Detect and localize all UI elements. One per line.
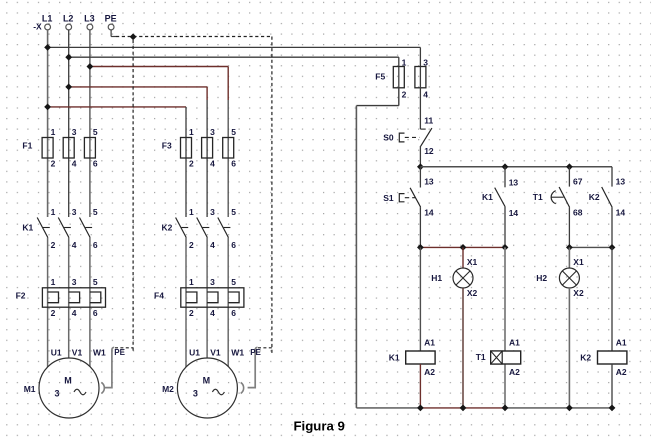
svg-text:6: 6 — [93, 159, 98, 169]
contactor K1 contact 1-2 — [37, 207, 55, 250]
motor M2 PE pigtail — [241, 347, 258, 393]
svg-text:S1: S1 — [383, 193, 394, 203]
coil K1 — [406, 338, 436, 378]
svg-text:U1: U1 — [189, 347, 200, 357]
svg-text:3: 3 — [72, 207, 77, 217]
wire K2 coil to bottom rail — [611, 364, 613, 408]
wire K2 aux to K2 coil — [611, 247, 613, 351]
wire S0 to rail — [419, 146, 421, 167]
overload F4 pole 3-4 — [207, 277, 218, 318]
wire rail2 to H1 — [462, 247, 464, 268]
svg-text:3: 3 — [54, 389, 59, 399]
overload F4 pole 5-6 — [228, 277, 239, 318]
wire L1 branch to F3 — [48, 106, 186, 108]
wire PE dashed horizontal — [116, 36, 272, 38]
svg-text:F1: F1 — [22, 140, 32, 150]
svg-text:1: 1 — [189, 207, 194, 217]
svg-text:A2: A2 — [424, 367, 435, 377]
wire control top rail — [420, 166, 612, 168]
node mid rail K1aux — [502, 244, 509, 251]
wire control return left — [398, 88, 400, 106]
svg-text:U1: U1 — [51, 347, 62, 357]
svg-text:W1: W1 — [93, 347, 106, 357]
overload relay F4 box — [181, 288, 244, 307]
svg-text:5: 5 — [93, 207, 98, 217]
fuse F3 pole 3-4 — [202, 127, 216, 169]
wire bottom rail maroon — [420, 407, 505, 409]
fuse F1 pole 1-2 — [42, 127, 56, 169]
node bottom K1 — [417, 405, 424, 412]
wire rail to K1 aux — [504, 167, 506, 188]
svg-text:2: 2 — [189, 159, 194, 169]
svg-text:M: M — [203, 376, 211, 386]
node mid rail T1 — [566, 244, 573, 251]
svg-text:T1: T1 — [476, 352, 486, 362]
svg-text:F4: F4 — [154, 291, 164, 301]
svg-text:2: 2 — [189, 240, 194, 250]
svg-text:3: 3 — [210, 127, 215, 137]
svg-text:X2: X2 — [573, 288, 584, 298]
wire L1 feeder to F5 — [48, 46, 421, 48]
timer coil T1 — [491, 338, 521, 378]
wire H1 to bottom rail — [462, 288, 464, 408]
contact K2 aux NO — [602, 177, 626, 218]
wire mid rail K2 branch — [569, 246, 612, 248]
node bottom K2 — [609, 405, 616, 412]
svg-text:PE: PE — [114, 348, 125, 357]
svg-text:3: 3 — [423, 57, 428, 67]
wire PE dashed drop to M1 — [132, 40, 134, 353]
svg-text:S0: S0 — [383, 133, 394, 143]
wire F5 pole2 to S0 — [419, 67, 421, 130]
wire PE dashed link M2 — [258, 347, 272, 349]
fuse F1 pole 5-6 — [84, 127, 98, 169]
svg-text:3: 3 — [210, 277, 215, 287]
svg-text:4: 4 — [210, 240, 215, 250]
svg-text:14: 14 — [616, 208, 626, 218]
terminal L2 — [63, 14, 74, 30]
svg-text:1: 1 — [51, 277, 56, 287]
svg-text:67: 67 — [573, 177, 583, 187]
svg-text:4: 4 — [210, 308, 215, 318]
node PE tap — [130, 33, 137, 40]
svg-text:6: 6 — [93, 240, 98, 250]
wire F5 pole1 through — [398, 67, 400, 88]
pushbutton S1 NO contact — [399, 177, 434, 218]
svg-text:2: 2 — [189, 308, 194, 318]
svg-text:3: 3 — [210, 207, 215, 217]
svg-text:K1: K1 — [482, 192, 493, 202]
node mid rail H1 — [460, 244, 467, 251]
fuse F1 pole 3-4 — [63, 127, 76, 169]
wire rail corner to K2 aux — [611, 167, 613, 187]
lamp H1 — [453, 257, 478, 298]
wire L2 branch to F3 — [69, 86, 207, 88]
svg-text:Figura 9: Figura 9 — [294, 419, 345, 434]
node rail K1aux — [502, 163, 509, 170]
svg-text:A2: A2 — [509, 367, 520, 377]
wire bottom rail left — [356, 407, 420, 409]
motor M1 — [39, 358, 99, 418]
node bottom H2 — [566, 405, 573, 412]
svg-text:W1: W1 — [231, 347, 244, 357]
svg-text:4: 4 — [72, 308, 77, 318]
fuse F3 pole 1-2 — [181, 127, 195, 169]
pushbutton S0 NC contact — [399, 116, 434, 157]
node L2 tap — [65, 54, 72, 61]
node bottom H1 — [460, 405, 467, 412]
fuse F3 pole 5-6 — [223, 127, 237, 169]
wire L3 branch to F3 — [90, 66, 228, 68]
svg-text:X1: X1 — [573, 257, 584, 267]
svg-text:F3: F3 — [162, 140, 172, 150]
wire W phase M1 lower — [89, 238, 91, 367]
wire L3 vertical upper — [89, 30, 91, 217]
contactor K2 contact 3-4 — [197, 207, 215, 250]
terminal L1 — [42, 14, 53, 30]
svg-text:V1: V1 — [210, 347, 221, 357]
wire K1 coil to bottom rail — [419, 364, 421, 408]
wire rail to S1 — [419, 167, 421, 188]
svg-text:H2: H2 — [536, 273, 547, 283]
svg-text:X1: X1 — [467, 257, 478, 267]
coil K2 — [598, 338, 627, 378]
node L2 tap 2 — [65, 84, 72, 91]
svg-text:K2: K2 — [589, 192, 600, 202]
svg-text:1: 1 — [51, 207, 56, 217]
wire rail2 to H2 — [568, 247, 570, 268]
svg-text:5: 5 — [93, 127, 98, 137]
node mid rail S1 — [417, 244, 424, 251]
svg-text:6: 6 — [231, 308, 236, 318]
svg-text:6: 6 — [231, 240, 236, 250]
svg-text:12: 12 — [424, 146, 434, 156]
overload F2 pole 5-6 — [90, 277, 101, 318]
svg-text:5: 5 — [231, 207, 236, 217]
node rail T1 — [566, 163, 573, 170]
contactor K1 contact 3-4 — [58, 207, 76, 250]
contactor K1 contact 5-6 — [80, 207, 98, 250]
overload relay F2 box — [42, 288, 105, 307]
svg-text:A1: A1 — [509, 338, 520, 348]
svg-text:X2: X2 — [467, 288, 478, 298]
wire rail2 to K1 coil — [419, 247, 421, 351]
svg-text:4: 4 — [72, 159, 77, 169]
svg-text:5: 5 — [231, 127, 236, 137]
svg-text:F5: F5 — [375, 72, 385, 82]
wire rail2 through T1 coil — [504, 247, 506, 408]
svg-text:K1: K1 — [389, 352, 400, 362]
node mid rail K2 — [609, 244, 616, 251]
svg-text:A1: A1 — [424, 338, 435, 348]
svg-text:2: 2 — [51, 240, 56, 250]
svg-text:A1: A1 — [616, 338, 627, 348]
wire U phase M1 lower — [47, 238, 49, 367]
svg-text:11: 11 — [424, 116, 433, 126]
wire L1 vertical upper — [47, 30, 49, 217]
svg-text:K2: K2 — [162, 222, 173, 232]
svg-text:T1: T1 — [533, 192, 543, 202]
node L1 tap — [44, 44, 51, 51]
contactor K2 contact 5-6 — [218, 207, 236, 250]
wire bottom rail right — [505, 407, 612, 409]
svg-text:A2: A2 — [616, 367, 627, 377]
contact T1 timed NO — [551, 177, 583, 218]
svg-text:M2: M2 — [162, 384, 174, 394]
svg-text:5: 5 — [93, 277, 98, 287]
svg-text:14: 14 — [424, 208, 434, 218]
lamp H2 — [559, 257, 584, 298]
wire mid rail K1 branch — [420, 246, 505, 248]
overload F4 pole 1-2 — [186, 277, 197, 318]
svg-text:L1: L1 — [42, 14, 53, 24]
wire T1 contact to rail2 — [568, 207, 570, 247]
node L1 tap 2 — [44, 104, 51, 111]
wire L2 feeder to F5 — [69, 56, 399, 58]
svg-text:V1: V1 — [72, 347, 83, 357]
wire U phase M2 lower — [185, 238, 187, 367]
motor M2 — [177, 358, 237, 418]
svg-text:PE: PE — [105, 14, 117, 24]
node S0 rail — [417, 163, 424, 170]
wire PE dashed link M1 — [115, 347, 133, 349]
svg-text:L2: L2 — [63, 14, 74, 24]
svg-text:K1: K1 — [22, 222, 33, 232]
svg-text:K2: K2 — [580, 352, 591, 362]
wire K1 aux to rail2 — [504, 207, 506, 248]
svg-text:6: 6 — [231, 159, 236, 169]
svg-text:4: 4 — [423, 89, 428, 99]
fuse F5 pole 1-2 — [393, 57, 406, 99]
wire rail to T1 contact — [568, 167, 570, 187]
wire V phase M1 lower — [68, 238, 70, 359]
wire W phase M2 lower — [227, 238, 229, 367]
svg-text:2: 2 — [402, 89, 407, 99]
svg-text:13: 13 — [424, 177, 434, 187]
svg-text:13: 13 — [616, 177, 626, 187]
overload F2 pole 3-4 — [69, 277, 80, 318]
terminal L3 — [84, 14, 95, 30]
svg-text:PE: PE — [250, 348, 261, 357]
svg-text:1: 1 — [189, 277, 194, 287]
motor M2 terminal labels — [189, 347, 244, 357]
node bottom T1 — [502, 405, 509, 412]
svg-text:2: 2 — [51, 159, 56, 169]
wire S1 to rail2 — [419, 207, 421, 247]
svg-text:1: 1 — [402, 57, 407, 67]
wire PE drop — [110, 30, 112, 37]
svg-text:1: 1 — [51, 127, 56, 137]
wire V phase M2 lower — [206, 238, 208, 359]
contact K1 aux NO — [495, 178, 519, 218]
wire PE dashed drop to M2 — [271, 37, 273, 354]
svg-text:6: 6 — [93, 308, 98, 318]
node L3 tap — [87, 63, 94, 70]
terminal PE — [105, 14, 117, 30]
wire L2 vertical upper — [68, 30, 70, 217]
wire K2 aux to rail2 — [611, 207, 613, 247]
motor M1 PE pigtail — [101, 347, 114, 393]
svg-text:3: 3 — [72, 127, 77, 137]
svg-text:M: M — [64, 376, 72, 386]
svg-text:1: 1 — [189, 127, 194, 137]
fuse F5 pole 3-4 — [415, 57, 428, 99]
svg-text:L3: L3 — [84, 14, 95, 24]
svg-text:5: 5 — [231, 277, 236, 287]
motor M1 terminal labels — [51, 347, 106, 357]
contactor K2 contact 1-2 — [176, 207, 194, 250]
svg-text:4: 4 — [72, 240, 77, 250]
svg-text:F2: F2 — [16, 291, 26, 301]
svg-text:13: 13 — [509, 178, 519, 188]
svg-text:3: 3 — [72, 277, 77, 287]
svg-text:3: 3 — [193, 389, 198, 399]
svg-text:2: 2 — [51, 308, 56, 318]
svg-text:14: 14 — [509, 208, 519, 218]
svg-text:68: 68 — [573, 208, 583, 218]
svg-text:-X: -X — [33, 22, 42, 32]
svg-text:4: 4 — [210, 159, 215, 169]
overload F2 pole 1-2 — [48, 277, 59, 318]
svg-text:H1: H1 — [431, 273, 442, 283]
wire H2 to bottom rail — [568, 288, 570, 408]
svg-text:M1: M1 — [24, 384, 36, 394]
